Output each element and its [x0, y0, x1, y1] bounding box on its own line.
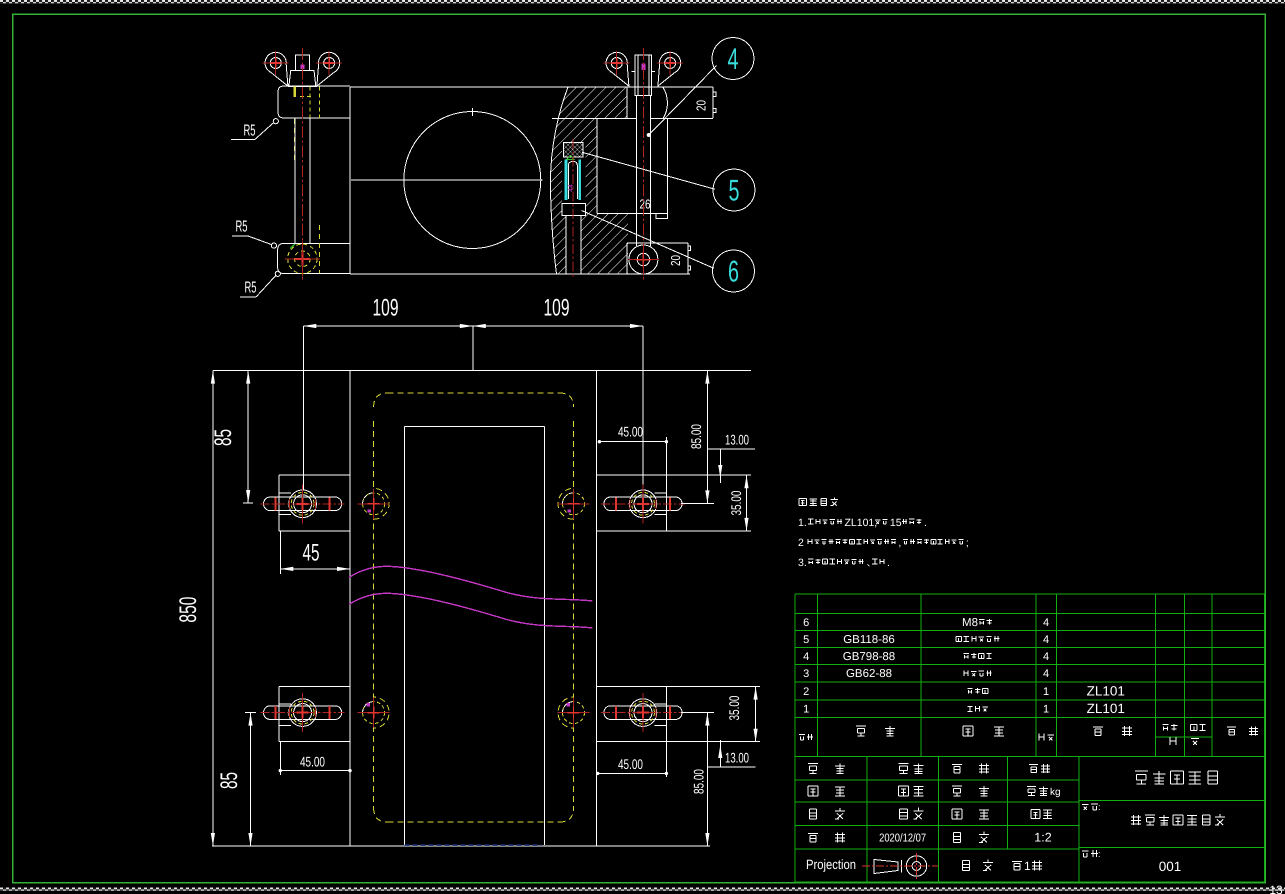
left bolt hidden lines	[293, 86, 295, 97]
dim 35.00 lower	[666, 686, 760, 688]
svg-text:.: .	[887, 557, 890, 569]
svg-text:1:2: 1:2	[1034, 831, 1051, 845]
svg-text:20: 20	[694, 100, 709, 111]
wing nut ears	[265, 52, 288, 86]
svg-text:13: 13	[1269, 883, 1283, 894]
bottom-right flange	[626, 243, 628, 274]
top selection strip	[0, 0, 1285, 3]
hidden hole circles on core line	[363, 493, 385, 515]
name label	[1082, 804, 1089, 810]
dim 45.00 lower-right	[598, 772, 667, 774]
balloon 4	[712, 38, 754, 80]
svg-text:13.00: 13.00	[725, 750, 749, 766]
cavity arc	[551, 87, 569, 274]
svg-text:35.00: 35.00	[728, 490, 744, 515]
svg-text:R5: R5	[245, 280, 257, 297]
leader to balloon 5	[582, 152, 715, 189]
right bolt shaft	[635, 95, 637, 246]
drawing title	[1131, 815, 1141, 825]
bolt hole left wall	[626, 87, 628, 119]
top-right plate	[663, 87, 668, 118]
lower block labels	[808, 764, 818, 774]
svg-text:850: 850	[175, 597, 202, 623]
svg-text:4: 4	[1043, 617, 1049, 629]
svg-text:ZL101,: ZL101,	[845, 517, 878, 529]
svg-text:6: 6	[728, 256, 739, 289]
dim 109+109	[303, 325, 643, 327]
dim 13.00 upper	[707, 448, 755, 450]
svg-text:85.00: 85.00	[691, 769, 707, 794]
svg-text:4: 4	[1043, 651, 1049, 663]
dim 85.00 upper	[706, 371, 708, 504]
svg-text:1: 1	[1043, 704, 1049, 716]
svg-text:GB118-86: GB118-86	[843, 634, 895, 646]
svg-text:26: 26	[640, 197, 651, 212]
dim 45 upper-left	[279, 531, 281, 574]
dim 45 upper-right	[599, 441, 666, 443]
BOM header text	[799, 735, 805, 740]
wing nut (plan)	[604, 706, 682, 720]
no label	[1082, 851, 1089, 857]
svg-text:ZL101: ZL101	[1087, 701, 1125, 716]
BOM table grid	[795, 593, 1264, 595]
upper-left flange	[278, 86, 350, 118]
pin body cyan highlight	[565, 160, 568, 201]
pocket	[596, 118, 598, 213]
svg-text:kg: kg	[1050, 787, 1061, 798]
dim 85.00 lower	[706, 713, 708, 846]
svg-text:1.: 1.	[798, 517, 807, 529]
yellow dashed core outline	[388, 392, 560, 394]
body surface line under plate	[552, 118, 636, 120]
svg-text:3.: 3.	[798, 557, 807, 569]
plan flange	[597, 474, 667, 476]
wing nut (plan)	[264, 497, 342, 511]
leader to balloon 4	[649, 66, 717, 136]
gong-ye page row	[962, 861, 969, 871]
svg-text:;: ;	[966, 537, 969, 549]
dim 85 upper	[247, 371, 249, 503]
svg-text:4: 4	[1043, 668, 1049, 680]
svg-text:M8: M8	[962, 617, 978, 629]
svg-text:2: 2	[803, 686, 809, 698]
svg-text::: :	[1098, 802, 1101, 812]
weight sub split	[1155, 736, 1212, 738]
svg-text:5: 5	[803, 634, 809, 646]
dim 850	[212, 371, 214, 846]
svg-text:GB798-88: GB798-88	[843, 651, 895, 663]
svg-text:5: 5	[729, 175, 740, 208]
plan inner cavity rect	[404, 426, 544, 428]
svg-text:001: 001	[1159, 859, 1182, 874]
wing nut ears	[606, 52, 629, 86]
svg-text:85: 85	[216, 772, 243, 789]
svg-text:,: ,	[898, 537, 901, 549]
bottom-right circle	[629, 245, 658, 274]
svg-text:45.00: 45.00	[618, 756, 643, 772]
dim 45.00 lower-left	[279, 742, 281, 775]
svg-text:GB62-88: GB62-88	[846, 668, 892, 680]
bolt head	[295, 55, 309, 70]
svg-text:15: 15	[890, 517, 902, 529]
svg-text:Projection: Projection	[806, 857, 856, 872]
svg-text:109: 109	[544, 295, 570, 322]
svg-text:45.00: 45.00	[618, 424, 643, 440]
wing nut body	[289, 70, 316, 86]
svg-text:1: 1	[803, 704, 809, 716]
magenta break lines	[349, 566, 593, 601]
dim 85 lower	[250, 713, 252, 846]
svg-text:3: 3	[803, 668, 809, 680]
left bolt shaft	[294, 118, 296, 244]
bottom selection strip	[0, 888, 1285, 892]
svg-text:1: 1	[1024, 859, 1031, 873]
wing nut (plan)	[604, 497, 682, 511]
balloon 5	[713, 169, 755, 211]
svg-text::: :	[1098, 849, 1101, 859]
svg-text:4: 4	[728, 43, 739, 76]
svg-text:2020/12/07: 2020/12/07	[879, 833, 926, 845]
svg-text:1: 1	[1043, 686, 1049, 698]
pin nut	[562, 203, 585, 215]
plan view outline	[213, 370, 751, 372]
leader to balloon 6	[582, 211, 714, 269]
right wing connectors	[632, 71, 636, 73]
green mark	[567, 156, 575, 160]
lower-left flange hidden circles	[288, 244, 317, 273]
pin channel below	[565, 216, 567, 274]
svg-text:13.00: 13.00	[725, 432, 749, 448]
hatched section	[551, 87, 628, 274]
svg-text:85.00: 85.00	[688, 424, 704, 449]
lower title block grid	[795, 756, 1264, 758]
svg-text:R5: R5	[244, 123, 256, 140]
dim 35.00 upper	[666, 474, 751, 476]
plan flange	[279, 686, 350, 688]
svg-text:45.00: 45.00	[300, 754, 325, 770]
right bolt head	[635, 55, 651, 95]
svg-text:85: 85	[210, 429, 237, 446]
svg-text:4: 4	[803, 651, 809, 663]
svg-text:2: 2	[798, 537, 804, 549]
dim 13.00 lower	[707, 766, 755, 768]
pin head cross-hatched	[563, 143, 583, 157]
svg-text:20: 20	[668, 255, 683, 266]
pin centerline	[572, 139, 574, 278]
plan flange	[597, 686, 667, 688]
big circle cavity	[404, 112, 541, 249]
right bolt centerline	[642, 48, 644, 281]
svg-text:6: 6	[803, 617, 809, 629]
left bolt centerline	[301, 48, 303, 281]
technical requirements	[799, 498, 806, 505]
balloon 6	[713, 250, 755, 292]
plan bottom hidden edge (blue)	[404, 844, 541, 846]
lower-left flange	[278, 244, 351, 274]
plan flange	[279, 474, 350, 476]
svg-text:R5: R5	[236, 219, 248, 236]
svg-text:109: 109	[373, 295, 399, 322]
svg-text:ZL101: ZL101	[1087, 683, 1125, 698]
svg-text:44: 44	[568, 184, 575, 192]
svg-text:45: 45	[303, 540, 320, 567]
wing nut (plan)	[264, 706, 342, 720]
svg-text:35.00: 35.00	[726, 695, 742, 720]
svg-text:.: .	[924, 517, 927, 529]
svg-text:4: 4	[1043, 634, 1049, 646]
university name	[1135, 771, 1148, 784]
top view: body outline	[350, 86, 713, 88]
